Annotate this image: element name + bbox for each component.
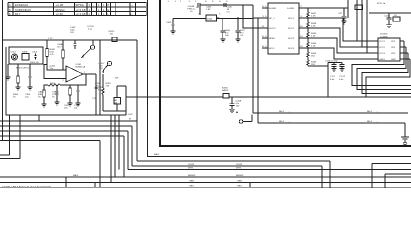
bottom-left corner wire 1 — [0, 115, 10, 155]
svg-text:-LED: -LED — [128, 114, 133, 116]
capacitor C312 — [52, 91, 59, 99]
harness line B — [0, 126, 322, 188]
cable right corner 2 — [385, 174, 411, 188]
svg-text:DDC3: DDC3 — [288, 38, 295, 40]
bundle drop 1 — [110, 115, 112, 183]
net labels RH repeat — [367, 109, 379, 123]
wire to H-VCC — [243, 5, 268, 28]
cable GRN line — [0, 182, 411, 184]
svg-text:M: M — [129, 119, 131, 121]
U401 left pin labels — [269, 8, 277, 50]
cable BRN line — [0, 177, 411, 187]
wire signal to right edge — [229, 96, 411, 98]
LC4966 left stubs — [374, 41, 378, 59]
svg-text:&.;: &.; — [130, 12, 134, 16]
table row 3 text — [9, 12, 133, 16]
resistor R318 vertical at x103 — [95, 74, 119, 111]
bottom-left corner wire 2 — [0, 115, 20, 159]
svg-text:\: \ — [132, 8, 133, 12]
wire wrap 4 — [366, 59, 410, 97]
resistor R308 — [46, 40, 56, 69]
svg-text:C41A 12.042: C41A 12.042 — [325, 60, 338, 63]
svg-text:S30B: S30B — [22, 52, 28, 54]
test point circle T4 — [236, 111, 253, 123]
table row 2 text — [9, 8, 133, 12]
svg-text:BRN/W: BRN/W — [188, 175, 196, 177]
wire pin to LC4966 pin4 — [308, 48, 378, 59]
svg-text:HCL1: HCL1 — [269, 48, 275, 50]
svg-text:C3L3: C3L3 — [11, 52, 17, 54]
svg-text:10V: 10V — [70, 32, 74, 34]
svg-text:+2.4 1B: +2.4 1B — [76, 12, 86, 16]
ground under R311 — [42, 97, 47, 107]
component S301 box — [22, 52, 29, 61]
ground under R313 — [68, 103, 73, 106]
svg-text:VCC1: VCC1 — [379, 41, 386, 43]
svg-text:CA311: CA311 — [38, 91, 45, 94]
microphone MC301 (double circle) — [11, 52, 18, 61]
svg-text:C3L5: C3L5 — [32, 52, 38, 54]
svg-text:G: G — [219, 1, 221, 3]
svg-text:D-GND: D-GND — [287, 8, 295, 10]
ground at frame bottom right — [401, 137, 409, 145]
capacitor C302 — [32, 52, 38, 60]
test point 3 circle with leader — [102, 61, 111, 73]
svg-text:C3A12: C3A12 — [52, 91, 59, 94]
cable labels — [73, 153, 244, 187]
svg-text:H-VCC: H-VCC — [269, 28, 276, 30]
svg-text:GRN: GRN — [237, 181, 242, 183]
resistor R444 — [307, 38, 317, 48]
svg-text:98/9&4: 98/9&4 — [56, 8, 66, 12]
svg-text:2.2K: 2.2K — [311, 36, 316, 38]
wire top entering frame 2 — [362, 0, 374, 47]
svg-text:D1Y: D1Y — [15, 12, 21, 16]
net RH-2 — [258, 119, 405, 137]
wire wrap 2 — [357, 47, 411, 90]
svg-text:FPJL 1b: FPJL 1b — [377, 3, 386, 5]
svg-text:EXREAD1: EXREAD1 — [15, 3, 29, 7]
svg-text:GND1: GND1 — [379, 59, 386, 61]
input wire network — [44, 64, 63, 79]
svg-text:-: - — [93, 9, 94, 12]
resistor R438 — [393, 15, 400, 21]
svg-text:IC301: IC301 — [76, 64, 83, 66]
svg-text:GRY-: GRY- — [237, 185, 242, 187]
wire 1.2V rail — [3, 39, 138, 41]
svg-text:DC4BD: DC4BD — [380, 34, 388, 36]
wire crystal bus drop — [327, 63, 329, 98]
resistor R311 — [38, 90, 45, 99]
svg-text:WHT-: WHT- — [236, 168, 242, 170]
svg-text:E: E — [108, 8, 110, 12]
bottom text strip — [2, 185, 51, 188]
capacitor C410 with ground — [384, 13, 392, 28]
svg-text:RH-2: RH-2 — [367, 121, 373, 123]
crystal capacitor CY1 — [308, 60, 342, 81]
resistor R437 — [355, 3, 386, 9]
svg-text:1D: 1D — [394, 15, 397, 17]
svg-text:DDC1: DDC1 — [288, 18, 295, 20]
svg-text:WHT-: WHT- — [188, 168, 194, 170]
svg-text:+4 1B: +4 1B — [56, 3, 64, 7]
svg-text:-: - — [93, 13, 94, 16]
capacitor C411 with ground — [338, 8, 347, 24]
bottom-left drop wire — [38, 115, 40, 121]
svg-text:YELW: YELW — [188, 164, 195, 166]
IC LC4966 — [378, 34, 400, 61]
resistor R446 — [307, 58, 317, 66]
svg-text:1.B7: 1.B7 — [206, 9, 211, 11]
capacitor C305 — [25, 64, 33, 99]
capacitor C309 — [70, 27, 77, 49]
cable short link 2 — [249, 183, 251, 188]
resistor R304 — [13, 64, 21, 99]
capacitor C310 — [87, 26, 95, 45]
IC U401 main — [268, 3, 299, 54]
svg-text:2.2K: 2.2K — [311, 26, 316, 28]
svg-text:HDA1: HDA1 — [269, 37, 276, 40]
svg-text:CY.X: CY.X — [330, 76, 335, 78]
svg-text:RH-1: RH-1 — [279, 111, 285, 113]
svg-text:MA-3: MA-3 — [154, 153, 160, 156]
wire SCL vertical — [257, 19, 259, 124]
svg-text:-: - — [93, 4, 94, 7]
crystal capacitor CY2 — [339, 63, 346, 81]
node 1.2V label — [48, 38, 53, 40]
U401 left pin stubs — [262, 6, 269, 48]
wire top drop — [347, 0, 349, 18]
wire pin to LC4966 pin1 — [308, 18, 378, 41]
wire top entering frame 3 — [367, 0, 374, 53]
capacitor C403 with ground — [166, 19, 176, 35]
svg-text:10V: 10V — [99, 68, 103, 70]
svg-text:CY.X2: CY.X2 — [339, 76, 346, 78]
svg-text:NJM4L1A: NJM4L1A — [76, 66, 86, 69]
wire SDA vertical — [252, 5, 254, 113]
feedback resistor R310 — [48, 83, 60, 86]
resistor R313 — [64, 85, 71, 110]
label LED — [128, 114, 133, 121]
diode D408 — [222, 88, 229, 98]
svg-text:SUBPCB-06: SUBPCB-06 — [15, 8, 31, 12]
inductor L303 — [57, 40, 64, 64]
svg-text:DDC2: DDC2 — [288, 28, 295, 30]
cable GRY line — [0, 186, 411, 188]
harness line C — [0, 131, 411, 170]
capacitor C40B with ground — [229, 97, 242, 113]
shield frame thick border — [160, 0, 411, 146]
bundle drop 2 — [114, 115, 116, 177]
svg-text:1D.7: 1D.7 — [57, 47, 62, 49]
LC4966 pin labels — [379, 41, 396, 61]
signal wire crossing to shield frame — [126, 96, 223, 98]
svg-text:VCC2: VCC2 — [379, 47, 386, 49]
resistor R441 — [307, 8, 317, 18]
resistor R442 — [307, 18, 317, 28]
bundle drop 3 — [118, 115, 120, 170]
wire left bus vertical — [2, 0, 4, 141]
test point 2 circle — [81, 45, 95, 58]
wire cluster bottom right of box — [103, 86, 126, 115]
resistor R443 — [307, 28, 317, 38]
wire wrap 3 — [362, 53, 411, 94]
cable right corner 1 — [372, 164, 411, 189]
svg-text:16V: 16V — [236, 106, 240, 108]
svg-text:R3L6 1B: R3L6 1B — [30, 62, 39, 64]
resistor R445 — [307, 48, 317, 58]
svg-text:RH-2: RH-2 — [279, 121, 285, 123]
svg-text:1.2V: 1.2V — [48, 38, 53, 40]
capacitor C404 on top rail — [188, 3, 244, 13]
svg-text:GRY-: GRY- — [189, 185, 194, 187]
svg-text:C410: C410 — [384, 16, 390, 18]
ground under C312 — [55, 98, 60, 105]
svg-text:T-7B: T-7B — [92, 98, 97, 100]
harness line D — [0, 136, 124, 177]
U401 right pin stubs — [299, 6, 308, 48]
ground left in box — [6, 64, 11, 80]
shield enclosure box left — [6, 40, 126, 115]
svg-text:BA2W: BA2W — [222, 89, 229, 92]
revision table grid — [8, 3, 146, 16]
wire pin to LC4966 pin3 — [308, 38, 378, 53]
inductor NR401 box — [173, 5, 253, 21]
transistor box AT-48 — [114, 86, 121, 111]
net RH-1 — [253, 109, 408, 113]
svg-text:VCC3: VCC3 — [379, 53, 386, 55]
outer thin border — [148, 0, 411, 157]
svg-text:R310: R310 — [50, 83, 56, 85]
svg-text:16V: 16V — [95, 88, 99, 90]
cable short link — [94, 183, 96, 188]
capacitor C306 — [44, 63, 56, 71]
svg-text:2.2K: 2.2K — [311, 46, 316, 48]
top right rail — [308, 8, 411, 13]
svg-text:C403: C403 — [166, 22, 172, 24]
capacitor C408 with ground — [220, 19, 230, 42]
svg-text:H-GND: H-GND — [269, 8, 277, 10]
bead W310 on rail — [109, 31, 118, 42]
svg-text:MA-3: MA-3 — [73, 174, 79, 177]
svg-text:98*94+: 98*94+ — [76, 3, 86, 7]
wire wrap 1 — [352, 41, 411, 86]
U401 right pin labels — [287, 8, 295, 50]
svg-text:S1GNAL CABLE ASSY 14P 1N 0.5 P: S1GNAL CABLE ASSY 14P 1N 0.5 P1TCH W1TH — [2, 185, 51, 188]
svg-text:GRN: GRN — [189, 181, 194, 183]
harness line E — [0, 141, 100, 188]
op-amp IC301 — [61, 64, 96, 82]
svg-text:P: P — [108, 3, 110, 7]
ground under C313 — [76, 103, 81, 106]
svg-text:C30A: C30A — [57, 43, 63, 46]
svg-text:HC_T: HC_T — [269, 18, 275, 20]
capacitor C405 — [224, 3, 253, 7]
table row 1 text — [9, 3, 134, 7]
svg-text:DDC4: DDC4 — [288, 48, 295, 50]
svg-text:GN2: GN2 — [391, 59, 396, 61]
harness line A — [0, 40, 330, 188]
svg-text:+2.5 1B: +2.5 1B — [76, 8, 86, 12]
capacitor C313 — [74, 85, 80, 110]
svg-text:YELW: YELW — [236, 164, 243, 166]
LC4966 right stubs — [400, 41, 410, 59]
top cut net labels — [167, 1, 228, 3]
feedback wire — [44, 74, 96, 115]
svg-text:+2.30: +2.30 — [56, 12, 64, 16]
svg-text:LC4966: LC4966 — [380, 36, 388, 38]
label ROLG UNI LD — [16, 62, 39, 69]
svg-text:RH-1: RH-1 — [367, 111, 373, 113]
capacitor C317 — [92, 63, 105, 100]
svg-text:BRN/W: BRN/W — [236, 175, 244, 177]
svg-text:10P: 10P — [115, 78, 119, 80]
svg-text:10uB: 10uB — [207, 19, 213, 21]
svg-text:2.2K: 2.2K — [311, 16, 316, 18]
inner module box — [9, 47, 43, 64]
capacitor C407 with ground — [236, 19, 246, 42]
wire to HSDT — [253, 17, 268, 19]
wire top entering frame 1 — [357, 0, 374, 41]
wire pin to LC4966 pin2 — [308, 28, 378, 47]
